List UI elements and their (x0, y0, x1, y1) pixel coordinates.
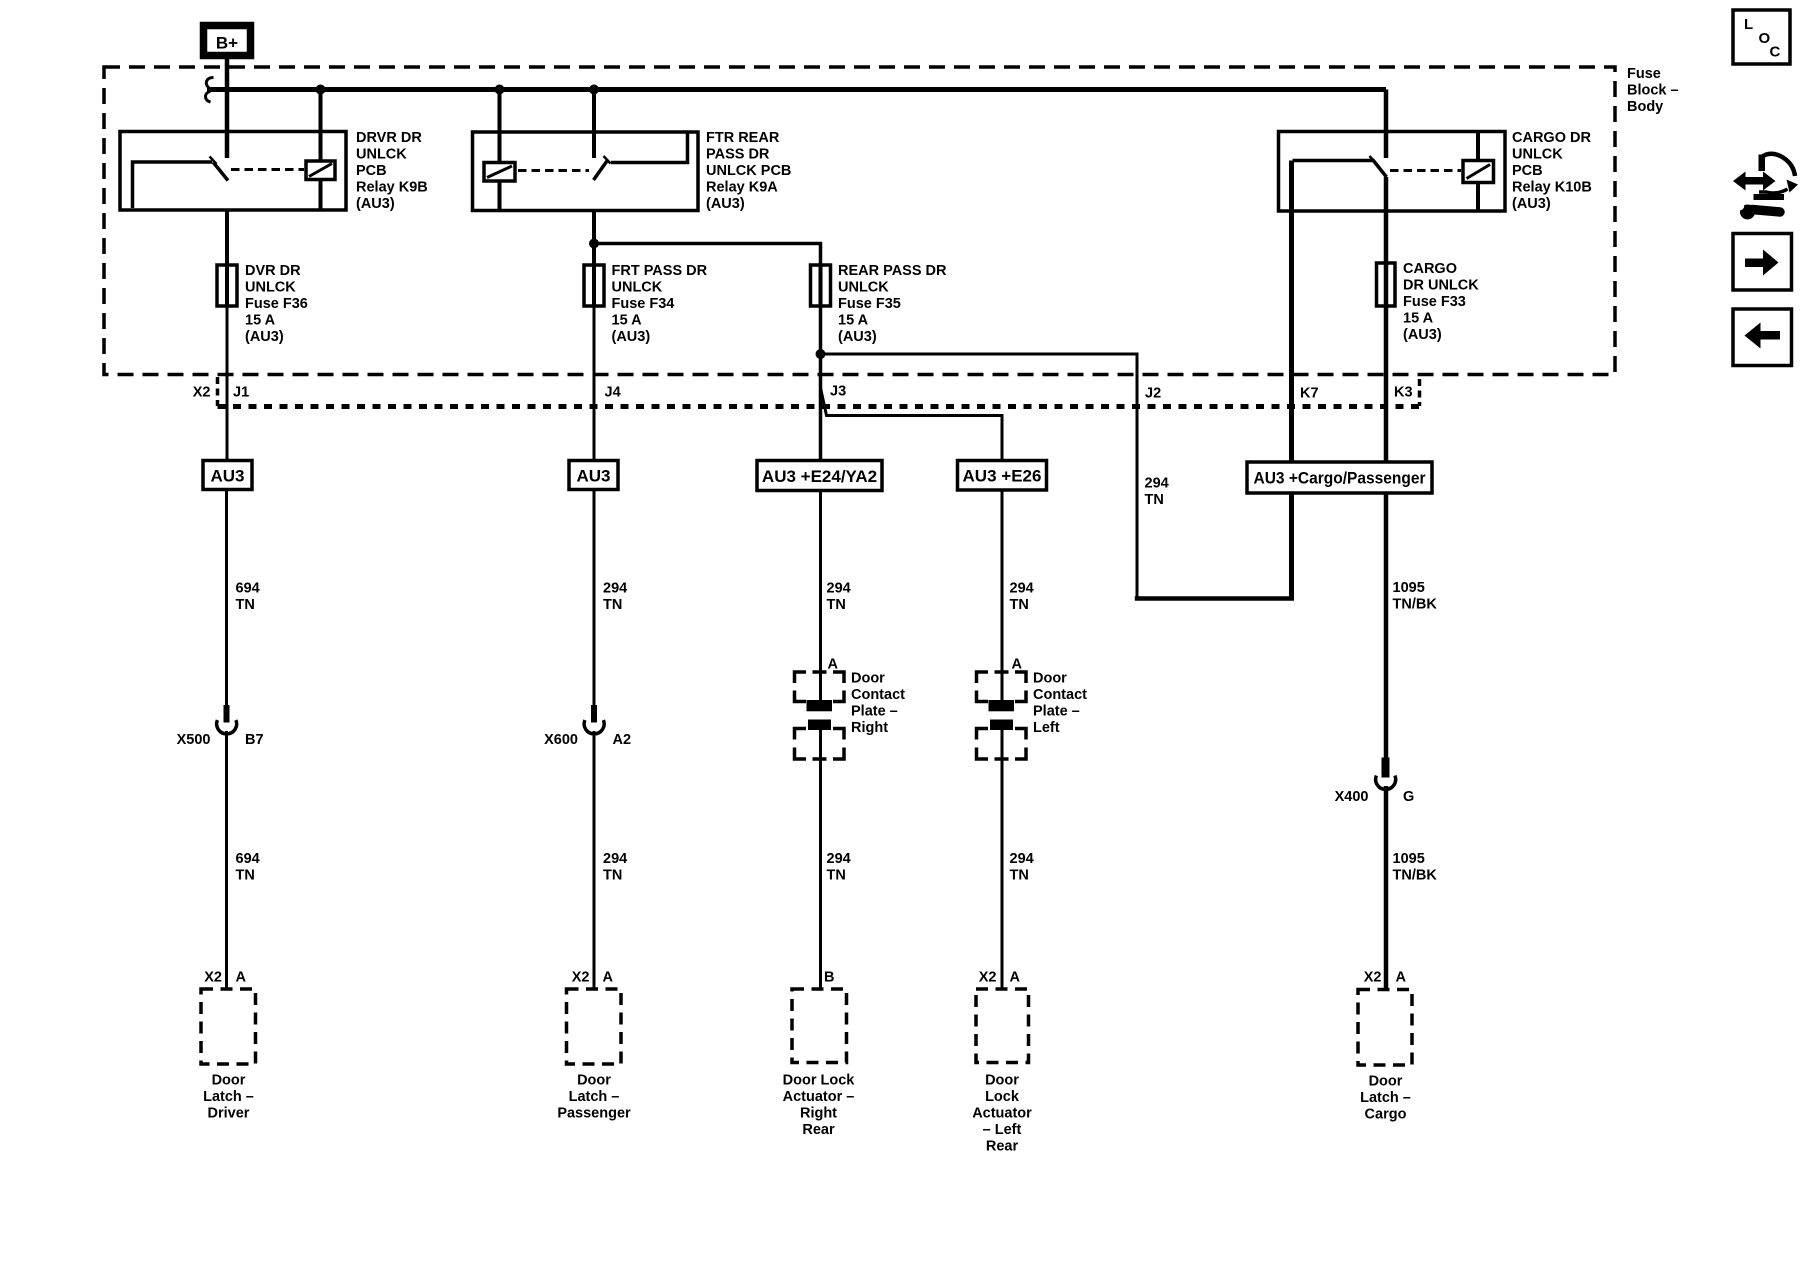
svg-text:FTR REAR: FTR REAR (706, 130, 780, 146)
svg-text:294: 294 (1010, 581, 1034, 597)
svg-text:Fuse: Fuse (1627, 66, 1661, 82)
svg-text:Plate –: Plate – (851, 704, 898, 720)
relay K9A (473, 132, 699, 211)
svg-text:C: C (1770, 44, 1781, 61)
inline connector X600 pin A2 (584, 705, 604, 734)
wire label 294 TN passenger lower (603, 851, 627, 884)
door latch passenger label (557, 1073, 631, 1122)
junction F34 branch (589, 239, 599, 249)
jump navigation icon (1733, 154, 1798, 220)
svg-text:Door: Door (212, 1073, 246, 1089)
fuse block label (1627, 66, 1679, 115)
svg-text:15 A: 15 A (838, 313, 869, 329)
svg-text:DVR DR: DVR DR (245, 263, 301, 279)
fuse F33 label (1403, 261, 1479, 343)
svg-text:X2: X2 (572, 970, 590, 986)
svg-text:Door: Door (1033, 671, 1067, 687)
pin labels X2 A door latch cargo (1364, 970, 1407, 986)
svg-text:Relay K10B: Relay K10B (1512, 180, 1592, 196)
svg-text:X2: X2 (204, 970, 222, 986)
fuse F34 (584, 265, 604, 306)
svg-text:J3: J3 (830, 384, 846, 400)
svg-text:Latch –: Latch – (1360, 1090, 1411, 1106)
connector X2 separator left (216, 377, 220, 406)
svg-text:CARGO: CARGO (1403, 261, 1457, 277)
wire 294 E26 to contact plate left (1001, 490, 1004, 700)
svg-text:TN: TN (603, 597, 622, 613)
svg-text:(AU3): (AU3) (1403, 327, 1442, 343)
fuse F36 (217, 265, 237, 306)
svg-text:PCB: PCB (356, 163, 387, 179)
wire bus to K9B coil (319, 90, 323, 162)
svg-text:UNLCK: UNLCK (612, 280, 663, 296)
wire K9A switch to fuse F34 (592, 211, 596, 266)
svg-text:AU3 +Cargo/Passenger: AU3 +Cargo/Passenger (1254, 469, 1426, 488)
fuse F36 label (245, 263, 308, 345)
wire 694 X500 to door latch driver (225, 731, 228, 989)
svg-text:A: A (1396, 970, 1407, 986)
door latch driver label (203, 1073, 254, 1122)
contact plate right label (851, 671, 905, 737)
svg-text:DRVR DR: DRVR DR (356, 130, 422, 146)
svg-text:1095: 1095 (1393, 580, 1425, 596)
svg-text:Passenger: Passenger (557, 1106, 631, 1122)
fuse block body boundary (104, 67, 1615, 375)
wire F33 to K3 (1384, 306, 1389, 464)
net label AU3 +E26 (958, 461, 1047, 491)
svg-text:AU3: AU3 (210, 467, 244, 486)
connector separator right of K3 (1418, 379, 1422, 406)
svg-text:Door: Door (985, 1073, 1019, 1089)
wire label 294 TN J2 (1145, 476, 1169, 509)
svg-text:TN: TN (236, 597, 255, 613)
svg-text:CARGO DR: CARGO DR (1512, 130, 1591, 146)
svg-text:A: A (1010, 970, 1021, 986)
svg-text:Fuse F34: Fuse F34 (612, 296, 675, 312)
svg-text:G: G (1403, 789, 1414, 805)
svg-text:Contact: Contact (1033, 687, 1087, 703)
svg-text:15 A: 15 A (612, 313, 643, 329)
svg-text:(AU3): (AU3) (838, 329, 877, 345)
svg-text:UNLCK: UNLCK (356, 147, 407, 163)
wire B+ down to relay K9B switch (225, 59, 230, 158)
relay K9B label (356, 130, 428, 212)
svg-text:Door: Door (1369, 1074, 1403, 1090)
battery feed B+ (204, 26, 251, 56)
svg-text:Contact: Contact (851, 687, 905, 703)
svg-text:(AU3): (AU3) (612, 329, 651, 345)
svg-text:REAR PASS DR: REAR PASS DR (838, 263, 947, 279)
svg-text:TN: TN (603, 868, 622, 884)
svg-text:AU3: AU3 (576, 467, 610, 486)
wire label 294 TN right rear upper (827, 581, 851, 614)
svg-text:Rear: Rear (802, 1122, 835, 1138)
fuse F35 label (838, 263, 947, 345)
wire K10B switch to fuse F33 (1384, 177, 1389, 263)
LOC indicator box (1733, 10, 1790, 64)
svg-text:Door: Door (577, 1073, 611, 1089)
svg-text:X400: X400 (1335, 789, 1369, 805)
svg-text:15 A: 15 A (1403, 311, 1434, 327)
svg-text:15 A: 15 A (245, 313, 276, 329)
wire bus drop to relay K10B (1384, 90, 1389, 159)
svg-text:Right: Right (800, 1106, 837, 1122)
wire B+ bus (207, 87, 1386, 92)
wire branch to fuse F35 (594, 244, 821, 266)
door latch driver (201, 989, 256, 1064)
svg-text:J2: J2 (1145, 386, 1161, 402)
wire label 1095 TN/BK upper (1393, 580, 1438, 613)
svg-text:UNLCK: UNLCK (838, 280, 889, 296)
svg-text:A: A (828, 657, 839, 673)
svg-text:A2: A2 (613, 732, 632, 748)
wire J3 branch to left rear circuit (821, 388, 1003, 461)
pin labels X2 A door latch driver (204, 970, 246, 986)
door lock actuator left rear (976, 989, 1029, 1063)
svg-text:TN/BK: TN/BK (1393, 868, 1438, 884)
door latch cargo (1358, 990, 1412, 1066)
wire label 694 TN upper (236, 581, 260, 614)
svg-text:294: 294 (827, 851, 851, 867)
svg-text:TN/BK: TN/BK (1393, 597, 1438, 613)
svg-text:L: L (1744, 16, 1753, 33)
svg-text:X2: X2 (193, 385, 211, 401)
net label AU3 driver (203, 461, 252, 490)
svg-text:694: 694 (236, 851, 260, 867)
svg-text:TN: TN (236, 868, 255, 884)
svg-text:TN: TN (827, 868, 846, 884)
wire label 294 TN left rear upper (1010, 581, 1034, 614)
svg-text:Relay K9B: Relay K9B (356, 180, 428, 196)
svg-text:294: 294 (603, 581, 627, 597)
svg-text:(AU3): (AU3) (356, 196, 395, 212)
wire J2 elbow to K7 (thick) (1135, 596, 1294, 601)
wire 694 AU3 to X500 (225, 490, 228, 706)
svg-text:Latch –: Latch – (203, 1089, 254, 1105)
wire 294 branch to J2 (821, 354, 1138, 599)
svg-text:TN: TN (827, 597, 846, 613)
svg-text:Block –: Block – (1627, 83, 1679, 99)
contact plate left label (1033, 671, 1087, 737)
svg-text:A: A (1012, 657, 1023, 673)
junction bus / K9B coil (316, 85, 326, 95)
wire label 1095 TN/BK lower (1393, 851, 1438, 884)
svg-text:Right: Right (851, 720, 888, 736)
svg-text:Fuse F35: Fuse F35 (838, 296, 901, 312)
wire 1095 K3 to X400 (1384, 493, 1389, 758)
svg-text:J4: J4 (605, 385, 621, 401)
wire 294 X600 to door latch passenger (593, 731, 596, 989)
svg-text:TN: TN (1010, 868, 1029, 884)
svg-text:Door: Door (851, 671, 885, 687)
net label AU3 +E24/YA2 (757, 461, 882, 491)
wire label 294 TN right rear lower (827, 851, 851, 884)
svg-text:294: 294 (1010, 851, 1034, 867)
wire bus to K9A switch (592, 90, 596, 159)
relay K9A label (706, 130, 791, 212)
relay K10B label (1512, 130, 1592, 212)
junction F35 294 branch (816, 349, 826, 359)
svg-text:PCB: PCB (1512, 163, 1543, 179)
svg-text:UNLCK PCB: UNLCK PCB (706, 163, 791, 179)
net label AU3 passenger (569, 461, 618, 490)
wire label 294 TN left rear lower (1010, 851, 1034, 884)
svg-text:Latch –: Latch – (569, 1089, 620, 1105)
svg-text:UNLCK: UNLCK (1512, 147, 1563, 163)
svg-text:– Left: – Left (983, 1122, 1022, 1138)
wire contact plate left to actuator (1001, 730, 1004, 989)
wire bus to K9A coil (498, 90, 502, 164)
wire 1095 X400 to door latch cargo (1384, 786, 1389, 989)
svg-text:AU3 +E26: AU3 +E26 (963, 467, 1042, 486)
svg-text:Door Lock: Door Lock (783, 1073, 856, 1089)
svg-text:A: A (603, 970, 614, 986)
back arrow box (1733, 309, 1792, 366)
pin labels X2 A door lock actuator left rear (979, 970, 1021, 986)
svg-text:(AU3): (AU3) (245, 329, 284, 345)
door lock actuator right rear (792, 989, 847, 1063)
svg-text:K3: K3 (1394, 385, 1413, 401)
wire contact plate right to actuator (819, 730, 822, 989)
svg-text:FRT PASS DR: FRT PASS DR (612, 263, 708, 279)
svg-text:X600: X600 (544, 732, 578, 748)
wire K10B contact to K7 (thick) (1289, 161, 1294, 599)
svg-text:AU3 +E24/YA2: AU3 +E24/YA2 (762, 467, 877, 486)
svg-text:UNLCK: UNLCK (245, 280, 296, 296)
door lock actuator left rear label (972, 1073, 1032, 1155)
fuse F35 (811, 265, 831, 306)
svg-text:Cargo: Cargo (1365, 1107, 1407, 1123)
svg-text:Driver: Driver (208, 1106, 250, 1122)
svg-text:A: A (236, 970, 247, 986)
svg-text:Plate –: Plate – (1033, 704, 1080, 720)
door lock actuator right rear label (783, 1073, 856, 1139)
door contact plate right (795, 672, 845, 759)
svg-text:Rear: Rear (986, 1139, 1019, 1155)
svg-text:1095: 1095 (1393, 851, 1425, 867)
svg-text:294: 294 (1145, 476, 1169, 492)
wire F34 to AU3 passenger circuit 294 (593, 306, 596, 461)
svg-text:DR UNLCK: DR UNLCK (1403, 278, 1479, 294)
svg-text:Fuse F33: Fuse F33 (1403, 294, 1466, 310)
svg-text:Actuator –: Actuator – (783, 1089, 855, 1105)
svg-text:B: B (824, 970, 834, 986)
wire F35 down through J3 (819, 306, 823, 461)
svg-text:J1: J1 (233, 385, 249, 401)
fuse F33 (1377, 263, 1396, 306)
svg-text:K7: K7 (1300, 386, 1319, 402)
svg-text:294: 294 (827, 581, 851, 597)
svg-text:Actuator: Actuator (972, 1106, 1032, 1122)
svg-text:Relay K9A: Relay K9A (706, 180, 778, 196)
wire label 694 TN lower (236, 851, 260, 884)
inline connector X500 pin B7 (217, 705, 237, 734)
svg-text:Left: Left (1033, 720, 1060, 736)
svg-text:694: 694 (236, 581, 260, 597)
svg-text:X2: X2 (979, 970, 997, 986)
door latch passenger (567, 989, 622, 1064)
svg-text:(AU3): (AU3) (706, 196, 745, 212)
fuse F34 label (612, 263, 708, 345)
svg-text:X2: X2 (1364, 970, 1382, 986)
pin labels X2 A door latch passenger (572, 970, 614, 986)
svg-text:TN: TN (1145, 492, 1164, 508)
wire label 294 TN passenger upper (603, 581, 627, 614)
svg-text:B7: B7 (245, 732, 264, 748)
svg-text:TN: TN (1010, 597, 1029, 613)
bus hook left end (206, 78, 214, 103)
svg-text:B+: B+ (216, 34, 238, 53)
junction bus / K9A switch (589, 85, 599, 95)
wire K9B switch to fuse F36 (225, 210, 229, 265)
relay K9B (120, 132, 346, 211)
net label AU3 +Cargo/Passenger (1247, 462, 1432, 493)
svg-text:PASS DR: PASS DR (706, 147, 770, 163)
inline connector X400 pin G (1376, 758, 1396, 790)
svg-text:Body: Body (1627, 99, 1663, 115)
svg-text:(AU3): (AU3) (1512, 196, 1551, 212)
svg-text:Fuse F36: Fuse F36 (245, 296, 308, 312)
forward arrow box (1733, 234, 1792, 291)
wire 294 AU3 to X600 (593, 490, 596, 706)
relay K10B (1279, 132, 1506, 212)
junction bus / K9A coil (495, 85, 505, 95)
svg-text:Lock: Lock (985, 1089, 1020, 1105)
door contact plate left (977, 672, 1027, 759)
wire F36 to AU3 driver circuit 694 (226, 306, 229, 461)
svg-text:X500: X500 (177, 732, 211, 748)
door latch cargo label (1360, 1074, 1411, 1123)
svg-text:294: 294 (603, 851, 627, 867)
connector strip dotted line (218, 404, 1420, 409)
wire 294 E24 to contact plate right (819, 491, 822, 701)
